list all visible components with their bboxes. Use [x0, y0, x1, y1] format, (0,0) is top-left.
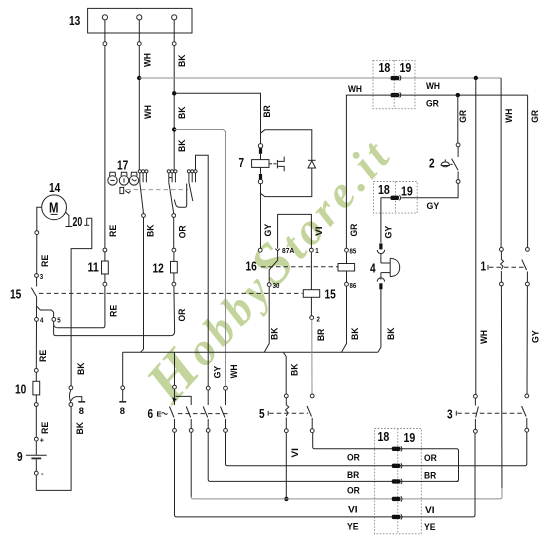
- wire BK horn to ground bus: [378, 289, 381, 352]
- switch 1 col A: [500, 248, 504, 286]
- wire WH horizontal bus (gray): [139, 77, 501, 79]
- ground bus horizontal: [123, 351, 378, 353]
- wire OR row 3: switch 6 col3 down and right: [208, 432, 458, 481]
- switch 17 blade 1: [140, 182, 144, 213]
- svg-text:BK: BK: [270, 327, 281, 340]
- switch 6 blade 3: [203, 390, 208, 428]
- connector pin YE row5: [392, 514, 402, 519]
- wire GR switch1 colB to switch3 colB: [526, 286, 528, 394]
- svg-text:YE: YE: [424, 522, 436, 533]
- switch 5 col B bottom: [310, 429, 314, 433]
- svg-text:VI: VI: [348, 505, 358, 516]
- svg-text:BK: BK: [76, 362, 87, 375]
- svg-text:BK: BK: [350, 327, 361, 340]
- switch 6 col4 bottom: [224, 429, 228, 433]
- svg-text:GY: GY: [384, 225, 395, 238]
- svg-text:WH: WH: [504, 109, 515, 123]
- wire WH (gray) from BK junction 2 to switch 6 col4: [174, 130, 225, 387]
- component 7: fuse with connectors: [252, 144, 285, 184]
- wire OR from blade 2 node to fuse 12: [173, 217, 175, 248]
- switch 1 col B: [522, 248, 530, 286]
- connector pin OR row3: [392, 479, 402, 484]
- relay 15 pin 2: [310, 316, 314, 320]
- wire RE down to switch 15 pin 3: [36, 235, 38, 274]
- connector 18/19 top block: [373, 60, 415, 108]
- connector pin GY (middle block): [390, 195, 400, 200]
- svg-text:13: 13: [69, 13, 80, 28]
- wire fuse 12 to switch 15 pin 5: [54, 286, 175, 336]
- svg-text:11: 11: [88, 260, 99, 275]
- node VI junction: [284, 497, 288, 501]
- dashed link switch 15 to relay 15 coil: [39, 292, 303, 294]
- wire YE row 5: switch 6 col1 to switch 3 colA: [175, 432, 476, 517]
- dashed mechanical link (switch 17): [126, 189, 188, 191]
- svg-text:19: 19: [400, 60, 412, 75]
- svg-text:87A: 87A: [282, 246, 295, 255]
- svg-text:BK: BK: [177, 54, 188, 67]
- switch 17 blade 2: [169, 182, 174, 213]
- wire GY: component 7 to relay 16 pin 87: [260, 184, 262, 248]
- svg-text:BR: BR: [424, 470, 436, 481]
- wire branch to pin 5: [37, 306, 54, 317]
- connector 18/19 bottom block: [375, 429, 422, 534]
- wire WH branch down to switch 3 col A: [475, 78, 477, 394]
- wire VI switch 5 col A down: [285, 433, 287, 498]
- svg-text:BR: BR: [262, 105, 273, 117]
- svg-text:15: 15: [325, 287, 336, 302]
- svg-text:3: 3: [447, 407, 453, 422]
- wire from 20 down-left to ground switch: [71, 218, 92, 386]
- svg-text:GR: GR: [426, 99, 439, 110]
- svg-text:VI: VI: [314, 226, 325, 236]
- svg-text:BK: BK: [386, 327, 397, 340]
- svg-text:1: 1: [481, 259, 487, 274]
- wire WH from 13 pin2 down: [137, 20, 141, 170]
- relay 16 pin 86: [345, 271, 349, 286]
- ground 8 (second): [119, 390, 126, 402]
- node WH junction: [137, 76, 141, 80]
- wire WH switch 1 col A down: [500, 286, 503, 497]
- node WH right junction: [474, 76, 478, 80]
- wire WH right corner down to switch 1 col A: [500, 78, 502, 248]
- svg-text:4: 4: [370, 261, 376, 276]
- ground 8 (left): [71, 397, 85, 402]
- node below blade 2: [172, 214, 176, 218]
- svg-text:OR: OR: [347, 485, 360, 496]
- relay 16 armature: [269, 260, 277, 282]
- svg-text:WH: WH: [229, 364, 240, 378]
- switch 6 col1-col2 bracket: [172, 396, 191, 405]
- switch 2 button icon: [441, 159, 453, 166]
- svg-text:BR: BR: [316, 329, 327, 341]
- switch 6 col1 from bus: [173, 352, 177, 405]
- wire GR right corner down to switch 1 col B: [527, 95, 529, 247]
- switch 6 actuator icon: [157, 410, 168, 419]
- svg-text:5: 5: [259, 406, 265, 421]
- fuse 12: [171, 248, 178, 286]
- svg-text:2: 2: [317, 315, 320, 324]
- svg-text:WH: WH: [143, 105, 154, 119]
- wire GR branch down to switch 2: [457, 95, 459, 143]
- svg-text:RE: RE: [40, 422, 51, 434]
- svg-text:19: 19: [401, 184, 413, 199]
- wire GY connector to horn: [381, 198, 391, 243]
- switch 17 pin group 1: [138, 170, 148, 183]
- horn 4 bottom terminal: [377, 273, 384, 290]
- svg-text:19: 19: [404, 430, 416, 445]
- battery 9: [26, 437, 47, 475]
- wire battery minus loop to ground switch: [36, 406, 71, 490]
- wire BR (gray) relay 15 pin 2 down to switch 5 col B: [311, 320, 313, 395]
- switch 6 blade 4: [221, 390, 226, 428]
- switch 6 col4 top: [224, 386, 228, 390]
- switch 6 col1 bottom: [173, 419, 177, 432]
- wire to battery +: [35, 406, 37, 437]
- switch 15 pin 5: [52, 318, 56, 322]
- svg-text:RE: RE: [108, 225, 119, 237]
- svg-text:WH: WH: [143, 53, 154, 67]
- svg-text:6: 6: [148, 406, 154, 421]
- svg-text:RE: RE: [38, 350, 49, 362]
- svg-text:WH: WH: [348, 84, 362, 95]
- diode D1: [308, 160, 316, 168]
- svg-text:BK: BK: [177, 106, 188, 119]
- svg-text:OR: OR: [177, 225, 188, 238]
- wire VI row 4 (gray): switch 6 col2 to switch 1 output: [191, 432, 502, 499]
- switch 5 blade B: [307, 406, 312, 429]
- switch 3 col A: [474, 394, 479, 433]
- svg-text:BK: BK: [290, 363, 301, 376]
- wire BR: BK junction right then down to component 7: [174, 93, 260, 143]
- svg-text:WH: WH: [426, 81, 440, 92]
- ground switch blade: [69, 390, 70, 403]
- svg-text:18: 18: [378, 429, 390, 444]
- svg-text:GY: GY: [213, 365, 224, 378]
- connector pin WH (top block): [391, 75, 401, 80]
- svg-text:16: 16: [246, 259, 257, 274]
- switch 15 pin 4: [35, 318, 39, 322]
- svg-text:9: 9: [17, 449, 23, 464]
- connector 18/19 middle block: [374, 182, 418, 214]
- svg-text:86: 86: [350, 281, 357, 290]
- horn 4 top terminal: [377, 243, 384, 263]
- capacitor 20 plate: [84, 218, 89, 225]
- wire BK pin 30 to ground bus: [264, 287, 269, 353]
- svg-text:12: 12: [153, 261, 164, 276]
- fuse 10: [33, 369, 40, 407]
- relay 15 pin 1: [310, 248, 314, 252]
- switch 5 col A from bus: [283, 352, 288, 398]
- svg-text:WH: WH: [479, 330, 490, 344]
- switch 6 blade 1: [170, 407, 175, 418]
- svg-text:18: 18: [378, 182, 390, 197]
- switch 6 col3 top: [206, 386, 210, 390]
- relay 16 pin 85: [345, 248, 349, 263]
- switch 17 blade-2 side path: [174, 184, 186, 208]
- svg-text:30: 30: [273, 281, 280, 290]
- svg-text:85: 85: [350, 246, 357, 255]
- wire BR row 2: switch 6 col4 to switch 3 colB: [226, 432, 527, 466]
- svg-text:18: 18: [379, 60, 391, 75]
- svg-text:5: 5: [57, 316, 60, 325]
- wire BK from blade 1 down to ground bus: [141, 217, 144, 352]
- relay 16 pin 30: [267, 283, 271, 287]
- svg-text:3: 3: [40, 272, 43, 281]
- svg-text:OR: OR: [424, 453, 437, 464]
- svg-text:7: 7: [239, 155, 245, 170]
- node GR junction: [456, 93, 460, 97]
- node BK junction 2: [172, 127, 176, 131]
- svg-text:BK: BK: [177, 139, 188, 152]
- svg-text:+: +: [40, 436, 45, 445]
- svg-text:BK: BK: [75, 422, 86, 435]
- switch 5 col B top: [310, 394, 314, 398]
- switch 15 (left): [31, 274, 38, 318]
- wire RE from 13 pin1 down to fuse 11: [103, 20, 107, 248]
- dashed link switch 3: [456, 411, 525, 416]
- switch 17 pin group 3: [187, 170, 197, 183]
- svg-text:GR: GR: [349, 224, 360, 237]
- ground switch node bottom: [69, 403, 73, 407]
- ground 8 node (second): [121, 386, 125, 390]
- dashed link relay 16: [261, 266, 338, 268]
- lamp L2: [119, 172, 128, 185]
- svg-text:GR: GR: [530, 110, 541, 123]
- wire fuse 11 to switch 15 pin 5: [54, 286, 105, 328]
- switch 5 blade A: [286, 398, 289, 429]
- switch 5 col A bottom: [284, 429, 288, 433]
- svg-text:RE: RE: [40, 255, 51, 267]
- wire motor right to stub plate: [65, 212, 72, 227]
- svg-text:17: 17: [117, 158, 128, 173]
- relay 16 pin 87: [258, 248, 262, 252]
- switch 2: [452, 143, 460, 183]
- svg-text:VI: VI: [290, 448, 301, 458]
- node below blade 1: [142, 214, 146, 218]
- wire 87A to relay 15 pin 1: [278, 214, 312, 248]
- wire GY from pin group 3 up and over to switch 6 col3: [196, 155, 209, 386]
- svg-text:VI: VI: [425, 505, 435, 516]
- wire OR row 1: switch 5 colB to loop: [313, 433, 459, 482]
- fuse 11: [102, 248, 109, 286]
- dashed link switch 5: [268, 411, 308, 416]
- svg-text:10: 10: [15, 382, 26, 397]
- connector block 13: [88, 8, 192, 33]
- node BK junction (to BR): [172, 91, 176, 95]
- svg-text:20: 20: [73, 214, 83, 229]
- switch 6 col3 bottom: [206, 429, 210, 433]
- lamp L1: [108, 172, 117, 185]
- svg-text:14: 14: [49, 180, 61, 195]
- wire diode branch: [261, 130, 312, 160]
- relay 15 coil: [303, 252, 319, 316]
- lamp L3: [129, 172, 138, 185]
- svg-text:GY: GY: [263, 223, 274, 236]
- svg-text:E: E: [157, 410, 162, 419]
- wire GY switch 2 to connector 19: [401, 183, 458, 197]
- relay 16 coil: [338, 264, 355, 272]
- svg-text:OR: OR: [347, 452, 360, 463]
- connector pin VI row4: [392, 496, 402, 501]
- wire motor left to node: [37, 207, 42, 230]
- switch 6 col2 bottom: [189, 419, 193, 432]
- switch 17 actuator icon: [120, 187, 131, 193]
- svg-text:OR: OR: [177, 309, 188, 322]
- svg-text:GY: GY: [427, 201, 440, 212]
- svg-text:GY: GY: [531, 330, 542, 343]
- switch 6 blade 2: [186, 407, 191, 418]
- svg-text:1: 1: [315, 246, 318, 255]
- wire BK from 13 pin3 down: [172, 20, 176, 170]
- svg-text:BK: BK: [146, 224, 157, 237]
- wire diode branch return: [261, 168, 312, 197]
- wire GR horizontal: [346, 95, 527, 248]
- svg-text:8: 8: [79, 406, 84, 417]
- ground switch node top: [69, 386, 73, 390]
- connector pin BR row2: [392, 463, 402, 468]
- svg-text:BR: BR: [347, 470, 359, 481]
- wire BK pin 86 to ground bus: [342, 286, 347, 352]
- svg-text:YE: YE: [347, 522, 359, 533]
- svg-text:15: 15: [10, 287, 21, 302]
- wire GY/GR column through switch 3 col B: [522, 394, 529, 432]
- switch 17 blade 3: [189, 182, 193, 201]
- relay 16 pin 87A contact: [275, 249, 279, 261]
- horn 4 speaker: [381, 258, 400, 276]
- svg-text:2: 2: [429, 156, 435, 171]
- wire RE pin4 down to fuse 10: [35, 321, 37, 368]
- switch 17 pin group 2: [167, 170, 177, 183]
- connector pin GR (top block): [391, 92, 401, 97]
- connector pin OR row1: [392, 446, 402, 451]
- dashed link switch 1: [488, 265, 526, 270]
- wire bus left corner down to ground 8: [122, 352, 124, 386]
- motor 14: [42, 195, 67, 220]
- dashed link switch 6: [178, 413, 228, 415]
- node below motor: [35, 231, 39, 235]
- svg-text:GR: GR: [458, 110, 469, 123]
- svg-text:8: 8: [120, 406, 125, 417]
- svg-text:RE: RE: [109, 305, 120, 317]
